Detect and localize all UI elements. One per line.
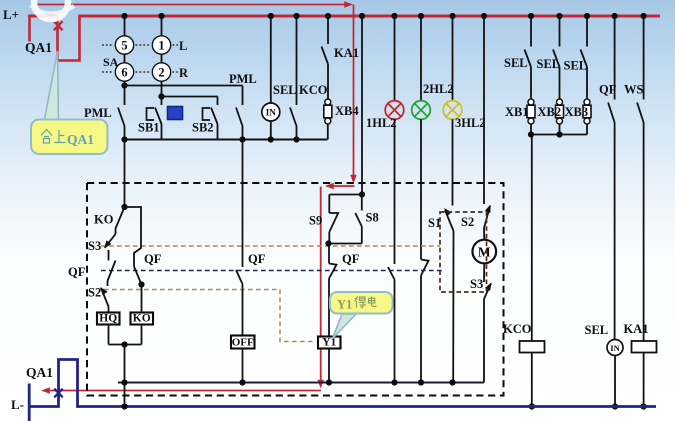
- contact S8: [361, 195, 363, 211]
- contact QF chain2: [134, 267, 142, 285]
- svg-text:S8: S8: [366, 211, 379, 225]
- wire KCO coil column: [531, 135, 533, 342]
- junction: [418, 379, 424, 385]
- wire control rail: [123, 139, 328, 141]
- svg-text:QF: QF: [144, 252, 162, 266]
- svg-text:KO: KO: [94, 213, 114, 227]
- indicator IN (right): [607, 340, 623, 356]
- wire L- bus main: [76, 405, 656, 408]
- contact S3: [484, 284, 491, 300]
- junction: [359, 191, 365, 197]
- contact S2: [484, 206, 490, 228]
- svg-text:WS: WS: [624, 83, 644, 97]
- wire HQ down: [108, 325, 110, 345]
- junction: [449, 379, 455, 385]
- wire col A into box: [124, 140, 126, 208]
- contact KCO column: [296, 16, 298, 105]
- contact S3 left: [115, 229, 117, 235]
- svg-text:S2: S2: [461, 215, 474, 229]
- svg-text:HQ: HQ: [99, 313, 117, 325]
- svg-text:3HL2: 3HL2: [455, 116, 486, 130]
- callout tail QA1: [44, 51, 59, 122]
- svg-text:2: 2: [158, 66, 164, 80]
- wire 2HL2 column upper: [420, 16, 422, 101]
- svg-text:S3: S3: [88, 239, 101, 253]
- wire red trace Y1 column: [320, 187, 322, 384]
- wire col A lower: [124, 126, 126, 140]
- breaker QA1 X mark bottom: [54, 389, 62, 398]
- junction: [641, 13, 647, 19]
- junction: [268, 13, 274, 19]
- motor M: [473, 240, 497, 264]
- decor: [31, 0, 74, 19]
- svg-text:Y1: Y1: [337, 298, 352, 312]
- wire KA1 to bus: [643, 353, 645, 407]
- svg-text:IN: IN: [610, 343, 620, 353]
- contact KA1: [327, 16, 329, 44]
- arrow left: [325, 183, 334, 190]
- contact SEL 2: [559, 16, 561, 47]
- wire to OFF: [242, 284, 244, 336]
- wire to HQ: [108, 307, 110, 313]
- junction: [293, 13, 299, 19]
- button HQ: [97, 313, 120, 325]
- arrow right: [344, 1, 353, 8]
- breaker QA1 bottom pole: [59, 360, 78, 407]
- contact S2 left: [101, 288, 109, 307]
- lamp 3HL2 (yellow): [443, 101, 462, 120]
- breaker QA1 X mark: [54, 21, 63, 30]
- wire SA column right: [161, 16, 163, 97]
- svg-text:OFF: OFF: [232, 337, 254, 349]
- junction: [326, 379, 332, 385]
- selector SA contact 6: [115, 63, 133, 81]
- chain2 wire from KO node: [125, 207, 142, 267]
- indicator blue button: [168, 107, 183, 120]
- contact S1: [445, 210, 454, 231]
- svg-text:SEL: SEL: [585, 323, 609, 337]
- linkage dashed tan lower to Y1: [104, 290, 316, 342]
- button KO: [131, 313, 154, 325]
- contact S9 (wedge): [328, 195, 330, 214]
- contact SEL 3: [586, 16, 588, 47]
- junction: [239, 136, 245, 142]
- linkage dashed navy QF: [101, 270, 443, 272]
- coil KA1: [632, 341, 657, 353]
- fuse XB2: [557, 99, 563, 105]
- svg-text:XB1: XB1: [505, 105, 529, 119]
- wire red trace drop: [353, 5, 355, 180]
- wire XB rail: [531, 134, 587, 136]
- junction: [584, 13, 590, 19]
- svg-text:5: 5: [121, 39, 127, 53]
- arrow down Y1: [317, 380, 324, 389]
- wire Y1 to rail: [328, 349, 330, 383]
- wire line2: [162, 96, 218, 98]
- wire to rail: [394, 280, 396, 383]
- svg-text:PML: PML: [229, 72, 257, 86]
- junction: [158, 13, 164, 19]
- contact QF col 329 (wedge): [328, 244, 330, 264]
- wire col 242 into box: [242, 140, 244, 268]
- junction: [391, 13, 397, 19]
- junction: [325, 13, 331, 19]
- junction: [121, 403, 127, 409]
- wire HQ-KO join: [109, 344, 142, 346]
- svg-text:2HL2: 2HL2: [423, 82, 454, 96]
- wire IN column: [270, 16, 272, 103]
- wire KCO to bus: [531, 353, 533, 407]
- indicator IN (left): [262, 103, 280, 121]
- wire OFF to rail: [242, 349, 244, 383]
- svg-text:KCO: KCO: [299, 83, 328, 97]
- junction: [528, 131, 534, 137]
- wire 1HL2 column lower: [394, 119, 396, 264]
- junction line2: [158, 93, 164, 99]
- breaker QA1 top pole: [58, 16, 80, 61]
- contact QF col 394: [388, 267, 395, 280]
- svg-text:R: R: [179, 66, 189, 80]
- junction: [325, 240, 331, 246]
- wire motor to S3: [483, 262, 485, 282]
- dotted row L: [102, 44, 114, 46]
- junction: [121, 204, 127, 210]
- pushbutton SB2: [217, 97, 219, 106]
- svg-text:QA1: QA1: [67, 132, 94, 147]
- contact QF col 242: [236, 270, 243, 284]
- svg-text:6: 6: [121, 66, 127, 80]
- wire bus left: [28, 15, 58, 18]
- contact SEL 1: [530, 16, 532, 47]
- wire red trace left: [327, 185, 354, 187]
- svg-text:Y1: Y1: [322, 337, 336, 349]
- svg-text:1: 1: [158, 39, 164, 53]
- wire 1HL2 column upper: [394, 16, 396, 101]
- svg-text:QF: QF: [68, 265, 86, 279]
- junction: [391, 379, 397, 385]
- dashed enclosure: [87, 183, 504, 396]
- svg-text:XB4: XB4: [335, 104, 359, 118]
- svg-text:1HL2: 1HL2: [366, 116, 397, 130]
- wire line1: [125, 85, 243, 87]
- svg-text:KCO: KCO: [503, 322, 532, 336]
- svg-text:SEL: SEL: [564, 58, 588, 72]
- fuse XB3: [584, 99, 590, 105]
- svg-text:L-: L-: [11, 397, 24, 412]
- svg-text:L+: L+: [3, 7, 19, 22]
- junction: [556, 13, 562, 19]
- junction: [121, 136, 127, 142]
- junction: [612, 403, 618, 409]
- junction: [529, 403, 535, 409]
- wire S2 to motor: [483, 228, 485, 240]
- svg-text:SB2: SB2: [192, 121, 214, 135]
- svg-text:KO: KO: [133, 313, 151, 325]
- wire lead: [107, 281, 109, 286]
- svg-text:XB3: XB3: [565, 105, 589, 119]
- wire to rail: [420, 276, 422, 383]
- svg-text:QF: QF: [248, 252, 266, 266]
- coil Y1: [318, 337, 341, 349]
- selector SA contact 2: [152, 63, 170, 81]
- svg-text:L: L: [179, 39, 187, 53]
- selector SA contact 1: [152, 36, 170, 54]
- fuse XB1: [528, 99, 534, 105]
- wire to rail: [452, 231, 454, 383]
- linkage dashed tan upper: [101, 245, 440, 247]
- callout tail Y1: [333, 314, 357, 339]
- coil KCO: [520, 341, 545, 353]
- dotted row R: [102, 71, 114, 73]
- junction line1: [121, 82, 127, 88]
- contact PML (col A): [118, 108, 125, 127]
- svg-text:S3: S3: [470, 277, 483, 291]
- contact WS: [643, 16, 645, 100]
- wire 3HL2 column mid: [452, 119, 454, 205]
- arrow down: [350, 175, 357, 184]
- svg-text:SA: SA: [103, 55, 119, 69]
- svg-text:XB2: XB2: [538, 105, 562, 119]
- wire lead: [108, 250, 110, 261]
- contact QF left: [108, 261, 116, 282]
- svg-text:SB1: SB1: [138, 121, 160, 135]
- junction: [268, 136, 274, 142]
- wire L- bus left: [29, 405, 60, 408]
- junction: [359, 13, 365, 19]
- junction: [528, 13, 534, 19]
- junction: [239, 379, 245, 385]
- contact KO: [116, 207, 125, 229]
- junction: [121, 379, 127, 385]
- arrow left L-: [41, 387, 50, 394]
- wire to L- bus: [124, 345, 126, 407]
- wire 2HL2 column lower: [420, 119, 422, 259]
- wire red return: [44, 390, 321, 392]
- dashed brown group box: [440, 212, 487, 292]
- callout balloon Y1 energized: [330, 292, 393, 314]
- callout balloon he-shang QA1: [31, 120, 108, 155]
- junction: [612, 13, 618, 19]
- wire S9S8 bottom bar: [329, 243, 362, 245]
- wire S9S8 top bar: [329, 194, 362, 196]
- junction: [418, 13, 424, 19]
- svg-text:QA1: QA1: [25, 40, 52, 55]
- wire to KO box: [141, 285, 143, 313]
- wire M column upper: [483, 16, 485, 204]
- wire column S8: [361, 16, 363, 195]
- wire to Y1 coil: [328, 279, 330, 337]
- junction: [481, 13, 487, 19]
- lamp 1HL2 (red): [385, 101, 404, 120]
- svg-text:SEL: SEL: [273, 83, 297, 97]
- svg-text:PML: PML: [84, 106, 112, 120]
- junction: [121, 13, 127, 19]
- junction: [121, 341, 127, 347]
- svg-text:S9: S9: [309, 214, 322, 228]
- svg-text:S2: S2: [88, 286, 101, 300]
- wire bottom rail: [118, 382, 484, 384]
- selector SA contact 5: [115, 36, 133, 54]
- wire IN to bus: [614, 356, 616, 407]
- junction: [641, 403, 647, 409]
- wire red trace top: [37, 4, 350, 6]
- junction: [449, 13, 455, 19]
- junction: [556, 131, 562, 137]
- junction: [293, 136, 299, 142]
- wire SA column left: [124, 16, 126, 105]
- svg-text:QF: QF: [342, 252, 360, 266]
- svg-text:KA1: KA1: [334, 46, 359, 60]
- fuse XB4: [325, 99, 331, 105]
- wire KO down: [141, 325, 143, 345]
- svg-text:M: M: [478, 245, 491, 260]
- pushbutton SB1: [161, 97, 163, 106]
- junction: [138, 281, 144, 287]
- contact QF right: [614, 16, 616, 100]
- lamp 2HL2 (green): [412, 101, 431, 120]
- contact PML (col 242): [242, 86, 244, 106]
- svg-text:SEL: SEL: [504, 56, 528, 70]
- svg-text:QA1: QA1: [26, 365, 53, 380]
- wire L- stub: [28, 384, 31, 421]
- svg-text:KA1: KA1: [624, 322, 649, 336]
- wire L+ bus main: [78, 15, 660, 18]
- svg-text:IN: IN: [266, 107, 277, 117]
- wire S3 to rail: [483, 299, 485, 383]
- wire L+ stub: [28, 15, 31, 42]
- wire 3HL2 column upper: [452, 16, 454, 101]
- button OFF: [231, 336, 255, 349]
- callout text he-shang QA1 (Chinese: close QA1): [41, 130, 66, 144]
- svg-text:SEL: SEL: [537, 57, 561, 71]
- contact QF col 421 (wedge): [421, 260, 429, 276]
